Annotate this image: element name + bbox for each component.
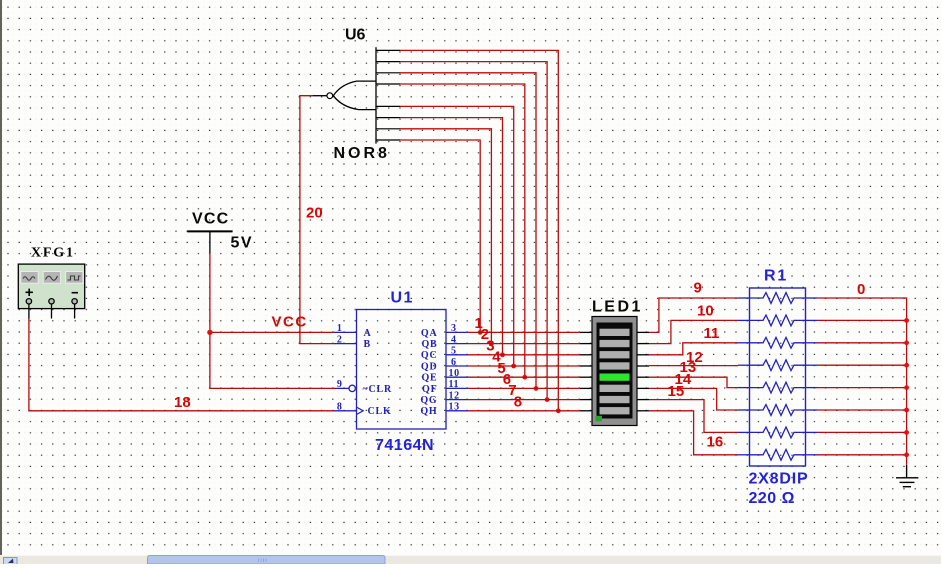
XFG1 minus mark <box>72 292 78 294</box>
pin CLK stub <box>334 410 357 412</box>
ground symbol <box>896 465 918 487</box>
svg-text:NOR8: NOR8 <box>334 145 390 162</box>
svg-text:10: 10 <box>697 303 714 320</box>
svg-text:6: 6 <box>451 357 457 368</box>
LED1 body <box>592 317 637 426</box>
svg-text:QC: QC <box>421 350 438 361</box>
wire LED1 row 1 to R1 net 9 <box>649 298 738 332</box>
left window border <box>0 0 2 556</box>
resistor R1 element 3 <box>750 337 806 348</box>
LED1 segment 4 <box>600 362 630 369</box>
svg-text:2: 2 <box>337 334 343 345</box>
wire QD to LED1 <box>468 365 581 367</box>
LED1 segment 3 <box>600 351 630 358</box>
resistor R1 element 1 <box>750 293 806 304</box>
XFG1 waveform buttons <box>21 272 83 284</box>
wire LED1 row 3 to R1 net 11 <box>649 343 738 355</box>
wire U6 input 4 to QE <box>400 84 527 380</box>
svg-text:U1: U1 <box>391 290 414 307</box>
svg-text:0: 0 <box>857 281 865 298</box>
svg-text:8: 8 <box>514 394 522 411</box>
wire R1 row 6 to bus <box>817 408 909 413</box>
resistor R1 element 5 <box>750 382 806 393</box>
svg-text:QE: QE <box>421 373 437 384</box>
resistor R1 element 7 <box>750 427 806 438</box>
svg-text:8: 8 <box>337 402 343 413</box>
wire R1 row 2 to bus <box>817 318 909 323</box>
power VCC symbol <box>187 231 232 253</box>
pin CLR stub with bubble <box>335 385 355 391</box>
junction on VCC rail <box>207 330 212 335</box>
svg-text:A: A <box>364 328 372 339</box>
wire QA to LED1 <box>468 331 581 333</box>
wire QF to LED1 <box>468 387 581 389</box>
svg-text:13: 13 <box>449 402 460 413</box>
wire R1 row 5 to bus <box>817 385 909 390</box>
svg-text:15: 15 <box>668 383 685 400</box>
R1 outer stubs <box>738 298 817 455</box>
wire U6 input 8 to QA <box>400 140 483 335</box>
svg-text:5V: 5V <box>231 235 254 252</box>
svg-text:B: B <box>364 339 371 350</box>
wire R1 row 8 to bus <box>817 452 909 457</box>
wire QE to LED1 <box>468 376 581 378</box>
svg-text:QG: QG <box>420 395 437 406</box>
svg-text:CLK: CLK <box>368 406 392 417</box>
wire QC to LED1 <box>468 354 581 356</box>
svg-text:QD: QD <box>421 361 438 372</box>
wire U6 input 6 to QC <box>400 118 505 358</box>
IC U1 body <box>357 310 447 430</box>
svg-text:XFG1: XFG1 <box>31 246 75 261</box>
wire VCC rail <box>210 253 335 388</box>
XFG1 terminals <box>26 299 77 304</box>
svg-text:QB: QB <box>421 339 437 350</box>
svg-text:74164N: 74164N <box>375 437 434 454</box>
bottom scrollbar track <box>0 555 941 564</box>
wire U6 input 7 to QB <box>400 129 494 346</box>
svg-text:LED1: LED1 <box>592 299 643 316</box>
wire LED1 row 4 to R1 net 12 <box>649 365 738 367</box>
wire R1 row 3 to bus <box>817 340 909 345</box>
LED1 right stubs <box>637 332 650 410</box>
LED1 segment 1 <box>600 329 630 336</box>
LED1 segment 6 <box>600 385 630 392</box>
svg-text:QF: QF <box>422 384 438 395</box>
wire XFG1 to CLK net 18 <box>29 319 334 411</box>
pin A stub <box>334 331 357 333</box>
resistor R1 element 8 <box>750 449 806 460</box>
svg-text:11: 11 <box>449 379 460 390</box>
svg-text:3: 3 <box>451 323 457 334</box>
svg-text:VCC: VCC <box>192 211 229 228</box>
svg-text:U6: U6 <box>345 27 366 44</box>
svg-text:QA: QA <box>421 328 438 339</box>
svg-text:4: 4 <box>451 334 457 345</box>
XFG1 plus mark <box>26 289 33 296</box>
wire LED1 row 7 to R1 net 15 <box>649 400 738 433</box>
wire U6 input 2 to QG <box>400 62 549 402</box>
svg-text:R1: R1 <box>764 268 788 285</box>
XFG1 terminal stubs <box>29 304 75 319</box>
svg-text:18: 18 <box>174 394 191 411</box>
svg-text:10: 10 <box>449 368 460 379</box>
LED1 segment 8 <box>600 407 630 414</box>
wire U6 input 3 to QF <box>400 73 538 391</box>
U6 output pin stub <box>312 95 327 97</box>
svg-text:20: 20 <box>306 205 323 222</box>
scrollbar thumb tab <box>148 556 386 565</box>
resistor R1 element 2 <box>750 315 806 326</box>
svg-text:9: 9 <box>337 379 343 390</box>
svg-text:16: 16 <box>707 434 724 451</box>
U6 input pin stubs <box>376 50 400 140</box>
LED1 left stubs <box>580 332 593 410</box>
svg-text:220 Ω: 220 Ω <box>749 490 795 507</box>
svg-text:12: 12 <box>449 390 460 401</box>
R1 body <box>750 288 806 466</box>
CLK edge triangle <box>357 407 364 414</box>
svg-text:QH: QH <box>420 406 437 417</box>
svg-text:9: 9 <box>694 280 702 297</box>
wire LED1 row 6 to R1 net 14 <box>649 388 738 410</box>
resistor R1 element 6 <box>750 405 806 416</box>
svg-text:1: 1 <box>337 323 343 334</box>
wire LED1 row 5 to R1 net 13 <box>649 377 738 387</box>
wire QB to LED1 <box>468 343 581 345</box>
pin B stub <box>334 343 357 345</box>
svg-text:5: 5 <box>451 346 457 357</box>
wire LED1 row 2 to R1 net 10 <box>649 320 738 343</box>
svg-text:2X8DIP: 2X8DIP <box>749 471 809 488</box>
LED1 segment 5 (lit) <box>600 374 630 381</box>
wire QH to LED1 <box>468 410 581 412</box>
instrument XFG1 body <box>18 264 84 309</box>
LED1 segment 2 <box>600 340 630 347</box>
LED1 segment 7 <box>600 396 630 403</box>
LED1 corner mark <box>596 416 603 422</box>
gate U6 NOR8 body <box>333 47 376 143</box>
svg-text:~CLR: ~CLR <box>363 384 393 395</box>
wire R1 row 4 to bus <box>817 363 909 368</box>
wire LED1 row 8 to R1 net 16 <box>649 411 738 455</box>
svg-text:11: 11 <box>704 325 720 342</box>
svg-text:VCC: VCC <box>272 314 308 331</box>
wire VCC to pin A <box>210 331 335 333</box>
U6 output bubble <box>327 93 333 99</box>
scrollbar corner icon <box>4 558 18 565</box>
pins QA-QH stubs <box>446 332 468 410</box>
wire QG to LED1 <box>468 399 581 401</box>
wire U6 input 1 to QH <box>400 50 561 413</box>
wire U6 input 5 to QD <box>400 106 516 368</box>
wire R1 row 7 to bus <box>817 430 909 435</box>
wire R1 row 1 to bus <box>817 298 907 465</box>
resistor R1 element 4 <box>750 360 806 371</box>
wire U6 output net 20 <box>300 96 335 344</box>
